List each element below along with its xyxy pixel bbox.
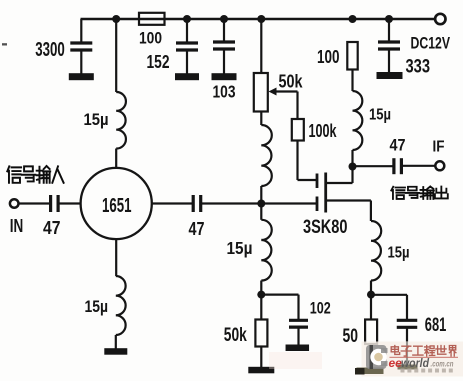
- svg-text:IN: IN: [10, 216, 23, 236]
- svg-text:100: 100: [139, 30, 162, 48]
- svg-text:50: 50: [343, 325, 359, 347]
- svg-text:102: 102: [310, 299, 331, 318]
- svg-text:15µ: 15µ: [388, 245, 410, 262]
- svg-text:681: 681: [425, 314, 447, 336]
- svg-text:15µ: 15µ: [227, 238, 253, 258]
- svg-text:100: 100: [317, 46, 340, 67]
- svg-text:1651: 1651: [102, 195, 132, 217]
- svg-text:103: 103: [213, 82, 236, 102]
- svg-text:333: 333: [406, 57, 431, 78]
- svg-text:DC12V: DC12V: [411, 35, 451, 53]
- svg-text:50k: 50k: [279, 71, 304, 91]
- svg-text:world: world: [401, 356, 430, 370]
- svg-text:IF: IF: [433, 139, 445, 156]
- svg-text:15µ: 15µ: [369, 107, 391, 124]
- svg-text:100k: 100k: [309, 120, 337, 141]
- svg-text:47: 47: [189, 219, 205, 239]
- svg-text:3SK80: 3SK80: [303, 217, 348, 238]
- svg-text:3300: 3300: [35, 39, 65, 61]
- svg-text:15µ: 15µ: [85, 298, 109, 316]
- svg-text:.com.cn: .com.cn: [431, 359, 454, 369]
- svg-text:50k: 50k: [224, 324, 247, 346]
- svg-text:47: 47: [390, 136, 406, 155]
- svg-text:152: 152: [147, 52, 170, 72]
- svg-text:47: 47: [43, 218, 61, 238]
- svg-text:15µ: 15µ: [84, 111, 109, 129]
